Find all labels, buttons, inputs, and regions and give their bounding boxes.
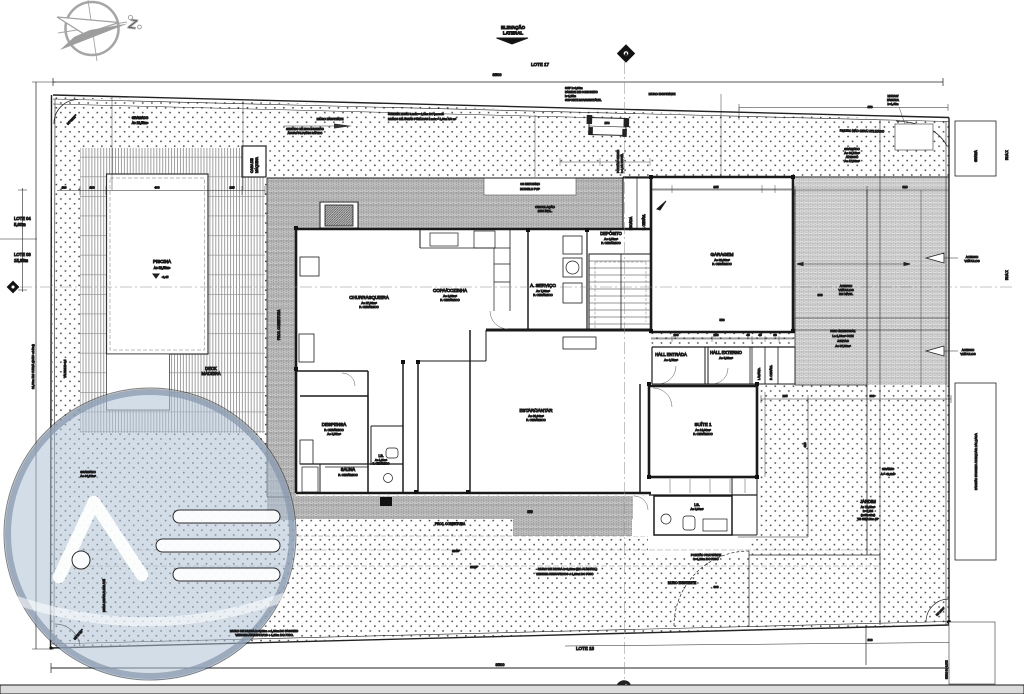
svg-text:LOTE 17: LOTE 17	[531, 62, 550, 67]
svg-text:JARDIM: JARDIM	[860, 499, 876, 504]
svg-text:MUROS DE ÁREAS PÚBLICAS h máx: MUROS DE ÁREAS PÚBLICAS h máx = 1,00m 3/…	[388, 116, 456, 121]
svg-text:180: 180	[89, 186, 94, 190]
svg-text:950: 950	[527, 510, 533, 514]
svg-text:HALL ENTRADA: HALL ENTRADA	[655, 352, 687, 357]
svg-text:LOTE 03: LOTE 03	[14, 252, 31, 257]
svg-text:MURO DO LOTE: MURO DO LOTE	[946, 660, 949, 679]
svg-text:CASA DE: CASA DE	[250, 158, 254, 173]
svg-text:200: 200	[673, 333, 678, 337]
svg-text:SUÍTE 1: SUÍTE 1	[694, 421, 712, 427]
svg-text:Le 1,00m² COM: Le 1,00m² COM	[832, 334, 854, 338]
svg-text:SUPORTE MOVIMENTÁVEL: SUPORTE MOVIMENTÁVEL	[565, 98, 602, 102]
svg-text:C3 RETORNO: C3 RETORNO	[520, 182, 540, 186]
svg-text:400: 400	[154, 186, 159, 190]
svg-text:PROJ. COBERTURA: PROJ. COBERTURA	[277, 309, 281, 340]
svg-text:VERDES ARBUSTIVOS + 1,80m DO P: VERDES ARBUSTIVOS + 1,80m DO PISO	[536, 572, 594, 576]
svg-text:5,60m: 5,60m	[14, 222, 26, 227]
svg-text:VEÍCULOS: VEÍCULOS	[964, 259, 979, 263]
svg-text:EM NÍVEL: EM NÍVEL	[839, 292, 853, 296]
svg-text:MÁQUINA: MÁQUINA	[255, 156, 259, 173]
svg-text:VEÍCULOS: VEÍCULOS	[960, 352, 975, 356]
svg-text:150: 150	[604, 121, 609, 125]
svg-text:LAVAND.: LAVAND.	[757, 367, 761, 380]
svg-text:15,95m: 15,95m	[14, 258, 28, 263]
svg-text:TN SEM 10m 45°: TN SEM 10m 45°	[857, 517, 879, 521]
svg-text:550: 550	[719, 318, 724, 322]
svg-text:225: 225	[229, 186, 234, 190]
svg-text:ESCADA: ESCADA	[629, 216, 633, 230]
svg-text:Ae 5,88m²: Ae 5,88m²	[691, 507, 704, 511]
svg-text:21,00m EM CURVA (RAIO +140m): 21,00m EM CURVA (RAIO +140m)	[31, 344, 35, 389]
svg-text:h=1,8m REFTEL: h=1,8m REFTEL	[620, 153, 624, 173]
svg-text:600: 600	[869, 394, 874, 398]
svg-text:3500: 3500	[496, 662, 506, 667]
svg-text:P. CERÂM.: P. CERÂM.	[642, 214, 646, 230]
svg-text:3500: 3500	[493, 72, 503, 77]
svg-text:ELEVAÇÃO: ELEVAÇÃO	[501, 25, 526, 30]
svg-text:GRAMA²: GRAMA²	[882, 467, 894, 471]
svg-text:MODELO PVP: MODELO PVP	[520, 187, 540, 191]
svg-text:200: 200	[713, 333, 718, 337]
svg-text:235: 235	[782, 394, 787, 398]
svg-text:h=1,20m DO PISO: h=1,20m DO PISO	[693, 557, 719, 561]
svg-text:Ae 28,58m²: Ae 28,58m²	[132, 121, 148, 125]
svg-text:TALUDE H=0,5: TALUDE H=0,5	[63, 359, 67, 378]
svg-text:P.MURO NÃO SERÁ UTILIZADO: P.MURO NÃO SERÁ UTILIZADO	[840, 128, 885, 134]
svg-text:1325*: 1325*	[470, 565, 479, 569]
svg-text:Ae 57,58m²: Ae 57,58m²	[835, 344, 851, 348]
svg-text:Ae 5,57m²: Ae 5,57m²	[327, 432, 341, 436]
svg-text:MURO EXISTENTE: MURO EXISTENTE	[668, 581, 696, 585]
svg-text:45: 45	[758, 333, 762, 337]
svg-text:RUA X: RUA X	[1005, 270, 1009, 280]
svg-text:PISCINA: PISCINA	[153, 259, 171, 264]
svg-text:MADEIRA: MADEIRA	[201, 371, 220, 376]
svg-text:310: 310	[902, 185, 907, 189]
svg-text:P. CERÂMICO: P. CERÂMICO	[712, 261, 732, 266]
svg-text:GRAMADO: GRAMADO	[132, 116, 149, 120]
svg-text:Ae 5,89m²: Ae 5,89m²	[719, 356, 733, 360]
svg-text:415: 415	[803, 442, 807, 447]
svg-text:P. CERÂMICO: P. CERÂMICO	[338, 472, 358, 477]
svg-text:DESPENSA: DESPENSA	[322, 422, 347, 427]
svg-text:P. CERÂMICO: P. CERÂMICO	[440, 297, 460, 302]
svg-text:P. CERÂMICO: P. CERÂMICO	[533, 292, 553, 297]
svg-text:P. CERÂMICO: P. CERÂMICO	[601, 240, 621, 245]
svg-text:GARAGEM: GARAGEM	[710, 252, 733, 257]
svg-text:Ae 32,58m²: Ae 32,58m²	[154, 266, 170, 270]
svg-text:ÁGUAS PLUVIAIS RÁPIDO: ÁGUAS PLUVIAIS RÁPIDO	[288, 131, 323, 135]
svg-text:Ae 6,78m²: Ae 6,78m²	[664, 358, 678, 362]
svg-text:650: 650	[867, 105, 872, 109]
svg-text:PISO INTERTRAV.: PISO INTERTRAV.	[830, 329, 855, 333]
svg-text:60: 60	[773, 333, 777, 337]
svg-text:SAUNA: SAUNA	[341, 467, 356, 472]
svg-text:SUNDER MURO h.máx = 1,20m DO p: SUNDER MURO h.máx = 1,20m DO passeio	[388, 112, 444, 116]
svg-text:10% INCL.: 10% INCL.	[538, 209, 553, 213]
svg-text:CHURRASQUEIRA: CHURRASQUEIRA	[349, 295, 389, 300]
svg-text:VERDES ARBUSTIVOS + 1,80m DO P: VERDES ARBUSTIVOS + 1,80m DO PISO	[235, 633, 293, 637]
svg-text:DEPÓSITO: DEPÓSITO	[600, 231, 622, 236]
svg-text:P. CERÂMICO: P. CERÂMICO	[359, 304, 379, 309]
svg-text:PADRÃO PASSEIO ADEQUAR CALÇADA: PADRÃO PASSEIO ADEQUAR CALÇADA	[973, 433, 978, 490]
svg-text:110: 110	[62, 186, 67, 190]
svg-text:965: 965	[713, 185, 718, 189]
svg-text:600: 600	[713, 585, 718, 589]
svg-text:RUA X: RUA X	[1005, 150, 1009, 160]
svg-text:LOTE 04: LOTE 04	[14, 216, 31, 221]
svg-text:PROJ. COBERTURA: PROJ. COBERTURA	[435, 522, 466, 526]
svg-text:A = 42,9m²: A = 42,9m²	[881, 472, 896, 476]
svg-text:h=1,45m: h=1,45m	[888, 102, 900, 106]
svg-text:GRAMA: GRAMA	[974, 149, 978, 162]
svg-text:P. CERÂMICO: P. CERÂMICO	[526, 417, 546, 422]
svg-text:-0,45: -0,45	[162, 275, 169, 279]
svg-text:Ae 17,88m²: Ae 17,88m²	[844, 159, 860, 163]
svg-text:MUDA DESTE ALINH ATÉ: MUDA DESTE ALINH ATÉ	[101, 579, 106, 612]
svg-text:P. CERÂMICO: P. CERÂMICO	[693, 431, 713, 436]
svg-text:A. SERVIÇO: A. SERVIÇO	[530, 283, 556, 288]
svg-text:JUNTAS: JUNTAS	[837, 339, 848, 343]
svg-text:COPA/COZINHA: COPA/COZINHA	[433, 288, 467, 293]
svg-text:Ae 94,37m²: Ae 94,37m²	[80, 474, 96, 478]
svg-text:- MURO DE DIVISA h=2,20m (NO A: - MURO DE DIVISA h=2,20m (NO ALINHAM.)	[536, 567, 597, 571]
svg-text:HALL EXTERNO: HALL EXTERNO	[710, 350, 742, 355]
svg-text:LATERAL: LATERAL	[503, 31, 523, 36]
svg-text:A: A	[625, 52, 628, 56]
svg-text:I.S.: I.S.	[378, 454, 383, 458]
svg-text:1985*: 1985*	[452, 549, 461, 553]
svg-text:600: 600	[867, 638, 872, 642]
svg-text:MURO EXISTENTE: MURO EXISTENTE	[317, 117, 344, 121]
svg-text:LOTE 15: LOTE 15	[576, 646, 595, 651]
svg-text:ESTAR/JANTAR: ESTAR/JANTAR	[519, 408, 553, 413]
svg-text:P. CERÂM.: P. CERÂM.	[768, 365, 773, 380]
svg-text:600: 600	[817, 293, 822, 297]
svg-text:45: 45	[746, 333, 750, 337]
svg-text:MURO EXISTENTE: MURO EXISTENTE	[649, 92, 676, 96]
